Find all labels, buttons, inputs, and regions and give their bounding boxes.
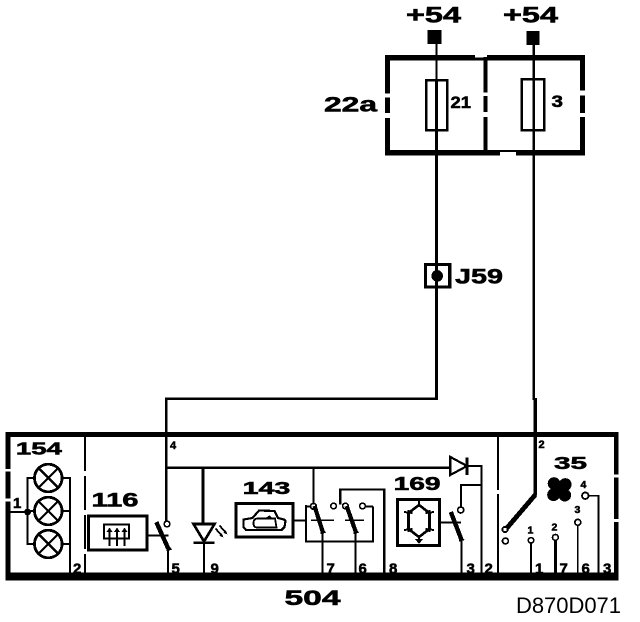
switch contact circle (pin 4 side) — [164, 521, 170, 527]
pin 6 label — [359, 561, 367, 578]
wire 116 box to switch crossbar — [147, 535, 169, 537]
svg-text:504: 504 — [285, 586, 341, 610]
svg-text:2: 2 — [73, 561, 81, 578]
fuse box 22a outline (dashed) — [385, 55, 587, 156]
lamp 3 of 154 — [35, 530, 63, 558]
svg-text:2: 2 — [552, 522, 558, 534]
junction dot on lamp rail — [24, 509, 31, 516]
pin 4 contact of 35 — [581, 479, 600, 575]
wire from diode branch to 169 switch contact — [460, 485, 483, 507]
fuse 21 value label — [451, 93, 472, 112]
switch 2 blade — [347, 506, 359, 534]
svg-text:3: 3 — [575, 504, 581, 516]
pin 1 bottom label — [535, 561, 543, 578]
unit 143 car icon — [244, 511, 286, 531]
open contact circle below blade — [503, 538, 509, 544]
pin 8 label — [389, 561, 397, 578]
unit 504 main box — [5, 432, 619, 581]
switch 2 contact circles — [331, 503, 366, 509]
lamp cluster 154 label — [16, 439, 62, 459]
svg-text:D870D071: D870D071 — [516, 593, 621, 618]
node +54 terminal 1 label — [406, 3, 462, 28]
fuse 21 symbol — [426, 80, 447, 130]
svg-text:1: 1 — [13, 495, 21, 512]
fuse box divider between fuse 21 and fuse 3 — [483, 57, 489, 153]
junction J59 box — [426, 265, 450, 287]
wire 143 box to switch bracket — [293, 519, 306, 521]
svg-text:3: 3 — [603, 561, 611, 578]
bulb monitor unit 116 label — [92, 489, 139, 511]
svg-text:22a: 22a — [324, 93, 377, 117]
svg-text:2: 2 — [485, 561, 493, 578]
lamp 1 of 154 — [35, 464, 63, 492]
separator line between 154 section and main section — [84, 437, 86, 574]
wire switch 1 to pin 7 — [322, 532, 324, 574]
unit 116 inner symbol — [104, 525, 129, 547]
svg-text:8: 8 — [389, 561, 397, 578]
unit 169 hexagon symbol — [404, 501, 434, 545]
junction J59 label — [455, 266, 503, 289]
switch bracket (common frame) — [305, 505, 374, 543]
switch blade for 116 — [156, 522, 172, 551]
wire from J59 down then left to pin 4 of unit 504 — [165, 287, 438, 437]
wire from fuse 21 down to junction J59 — [435, 80, 438, 290]
svg-text:169: 169 — [394, 473, 441, 494]
trunk switch unit 143 box — [236, 504, 293, 538]
svg-text:7: 7 — [327, 561, 335, 578]
lamp unit 169 box — [398, 500, 440, 546]
LED indicator symbol — [194, 524, 228, 543]
svg-text:21: 21 — [451, 93, 472, 112]
wire from +54 terminal 2 down to switch in unit 35 — [534, 45, 536, 495]
svg-text:1: 1 — [528, 525, 534, 537]
separator line between main section and 35 section — [497, 437, 499, 574]
blade tip circle — [502, 527, 507, 532]
wire diode to pin 2 — [480, 466, 482, 574]
diagram number D870D071 — [516, 593, 621, 618]
pin 2 label (bottom, lamp return) — [73, 561, 81, 578]
svg-text:35: 35 — [554, 453, 587, 473]
switch contact circle for 169 — [458, 507, 464, 513]
node +54 terminal 1 square — [428, 30, 442, 44]
switch 1 blade — [315, 506, 327, 534]
switch 2 crossbar — [345, 519, 364, 521]
svg-text:J59: J59 — [455, 266, 503, 289]
svg-text:1: 1 — [535, 561, 543, 578]
wire LED to pin 9 — [203, 543, 205, 574]
svg-text:3: 3 — [467, 561, 475, 578]
pin 3 contact of 35 — [575, 504, 581, 575]
svg-text:4: 4 — [581, 479, 587, 491]
switch blade for 169 — [451, 512, 465, 542]
node +54 terminal 2 label — [503, 3, 559, 28]
switch 1 crossbar — [311, 519, 334, 521]
pin 3 bottom label — [603, 561, 611, 578]
trunk switch unit 143 label — [243, 478, 291, 498]
lamp 2 of 154 — [35, 497, 63, 525]
junction J59 dot — [431, 270, 443, 282]
wire switch 2 to pin 6 — [355, 532, 357, 574]
svg-text:+54: +54 — [503, 3, 559, 28]
lamp parallel wiring left rail — [27, 478, 35, 544]
svg-text:6: 6 — [359, 561, 367, 578]
pin 5 label — [172, 561, 180, 578]
fuse 3 symbol — [522, 79, 545, 130]
svg-text:9: 9 — [211, 561, 219, 578]
lamp unit 169 label — [394, 473, 441, 494]
lamp parallel wiring right rail down to pin 2 — [62, 478, 71, 574]
unit 35 clover symbol — [547, 477, 571, 501]
svg-text:143: 143 — [243, 478, 291, 498]
pin 3 label — [467, 561, 475, 578]
unit 504 label — [285, 586, 341, 610]
svg-text:3: 3 — [552, 92, 564, 111]
bulb monitor unit 116 box — [89, 516, 148, 550]
svg-text:116: 116 — [92, 489, 139, 511]
svg-text:2: 2 — [539, 439, 545, 451]
node +54 terminal 2 square — [527, 31, 540, 45]
fuse box 22a label — [324, 93, 377, 117]
wire bus down to LED — [201, 468, 204, 524]
pin 2 label (bottom) — [485, 561, 493, 578]
wire 169 switch to pin 3 — [460, 540, 462, 575]
svg-text:4: 4 — [170, 440, 177, 452]
wire bus down to switch 1 contact — [312, 468, 314, 504]
pin 7 bottom label — [560, 561, 568, 578]
fuse 3 value label — [552, 92, 564, 111]
pin 1 contact of 35 — [528, 525, 534, 576]
pin 6 bottom label — [582, 561, 590, 578]
bus wire from pin 4 across to diode — [165, 467, 450, 469]
pin 9 label — [211, 561, 219, 578]
svg-text:5: 5 — [172, 561, 180, 578]
pin 2 label (top of 504) — [539, 439, 545, 451]
wire switch to pin 5 — [167, 549, 169, 574]
ignition switch unit 35 label — [554, 453, 587, 473]
pin 2 contact of 35 — [552, 522, 559, 576]
switch 1 contact circle — [311, 503, 317, 509]
pin 7 label — [327, 561, 335, 578]
pin 4 label (top of 504) — [170, 440, 177, 452]
svg-text:154: 154 — [16, 439, 62, 459]
svg-text:+54: +54 — [406, 3, 462, 28]
pin 1 label — [13, 495, 21, 512]
unit 35 switch blade (from pin 2 top) — [507, 495, 536, 529]
svg-text:6: 6 — [582, 561, 590, 578]
wire pin4 down to bus and to switch contact — [165, 437, 167, 522]
wire switch 2 pivot up and over to pin 8 — [339, 488, 385, 574]
wire from +54 terminal 1 to fuse 21 — [435, 44, 437, 80]
diode D1 — [450, 457, 482, 475]
wire 169 box to switch crossbar — [440, 521, 462, 523]
wire pin 1 into lamp rail — [9, 511, 28, 513]
svg-text:7: 7 — [560, 561, 568, 578]
